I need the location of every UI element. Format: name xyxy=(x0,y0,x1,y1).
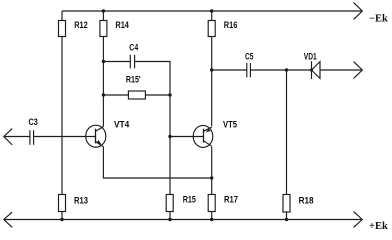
junction R18 top xyxy=(285,68,288,71)
bottom rail left arrow xyxy=(4,212,12,227)
junction C4 left xyxy=(102,60,105,63)
wire C5 right xyxy=(250,69,311,71)
capacitor C5 xyxy=(247,63,251,77)
wire R15' right xyxy=(145,94,170,96)
wire R13 bottom xyxy=(61,212,63,220)
wire R18 bottom xyxy=(286,212,288,220)
svg-text:R16: R16 xyxy=(224,20,238,30)
svg-text:R13: R13 xyxy=(74,195,88,205)
transistor VT5 xyxy=(193,125,213,147)
wire VT5 base xyxy=(170,136,204,138)
wire VT5 collector down xyxy=(211,147,213,195)
svg-text:R15: R15 xyxy=(183,194,196,204)
svg-text:R18: R18 xyxy=(299,195,314,205)
junction R15-rail xyxy=(168,218,171,221)
capacitor C4 xyxy=(130,55,134,69)
resistor R13 xyxy=(59,195,66,212)
svg-text:R15': R15' xyxy=(126,75,141,85)
resistor R17 xyxy=(208,195,215,212)
diode VD1 xyxy=(310,61,320,79)
wire R18 column xyxy=(286,70,288,195)
resistor R18 xyxy=(283,195,290,213)
wire R12 branch top xyxy=(61,11,63,21)
svg-text:R14: R14 xyxy=(115,20,129,30)
resistor R15 xyxy=(166,195,173,212)
junction R15' right xyxy=(168,93,171,96)
junction VT5 base tap xyxy=(168,135,171,138)
wire R14 top xyxy=(102,11,104,21)
svg-text:C5: C5 xyxy=(245,52,253,62)
wire top rail xyxy=(62,10,362,12)
junction R17-rail xyxy=(210,218,213,221)
wire VD1 to output xyxy=(320,69,362,71)
wire C3 to VT4 base xyxy=(34,136,96,138)
wire R16 to VT5 xyxy=(211,37,213,127)
wire C4 left xyxy=(103,61,130,63)
resistor R12 xyxy=(59,21,66,37)
svg-text:−Ek: −Ek xyxy=(369,14,388,25)
resistor R15' xyxy=(128,91,145,99)
wire feedback column x170 xyxy=(169,95,171,195)
wire VT4 emitter link xyxy=(103,147,211,178)
resistor R16 xyxy=(208,21,215,37)
wire C4 right xyxy=(135,62,170,96)
junction R18-rail xyxy=(285,218,288,221)
svg-text:C4: C4 xyxy=(129,42,138,52)
junction R15' left xyxy=(102,93,105,96)
junction top rail R14 xyxy=(102,9,105,12)
svg-text:VT4: VT4 xyxy=(114,120,129,130)
capacitor C3 xyxy=(30,130,34,145)
bottom rail right arrow xyxy=(354,212,363,228)
svg-text:VT5: VT5 xyxy=(223,120,237,130)
wire R17 bottom xyxy=(211,212,213,220)
svg-text:R17: R17 xyxy=(224,194,238,204)
svg-text:C3: C3 xyxy=(29,117,38,127)
output arrow xyxy=(354,62,363,79)
junction emitter link xyxy=(210,176,213,179)
wire C5 left xyxy=(212,69,247,71)
svg-text:R12: R12 xyxy=(74,20,88,30)
resistor R14 xyxy=(100,21,107,37)
wire R15 bottom xyxy=(169,212,171,220)
junction C5 left xyxy=(210,68,213,71)
wire R16 top xyxy=(211,11,213,21)
transistor VT4 xyxy=(86,125,106,147)
wire R12-R13 middle xyxy=(61,37,63,195)
svg-text:+Ek: +Ek xyxy=(369,221,388,232)
svg-text:VD1: VD1 xyxy=(304,51,317,61)
wire R15' left xyxy=(103,94,128,96)
input arrow xyxy=(4,129,12,145)
wire input to C3 xyxy=(5,136,30,138)
junction top rail R16 xyxy=(210,9,213,12)
top rail arrow xyxy=(354,3,363,20)
wire R14 to VT4 collector xyxy=(102,37,104,127)
junction R13-rail xyxy=(60,218,63,221)
wire bottom rail xyxy=(5,219,362,221)
